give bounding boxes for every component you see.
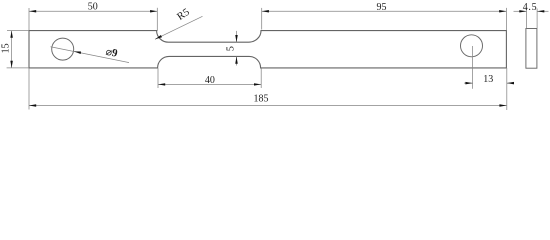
leader d9 <box>51 47 130 63</box>
dim 185/13 ext right <box>506 68 508 110</box>
arrow 185 right <box>499 104 506 106</box>
arrow 5 top <box>235 35 238 42</box>
arrow 4.5 right <box>537 10 544 12</box>
arrow 15 bottom <box>10 61 13 68</box>
dim 15 line <box>11 31 13 68</box>
arrowheads <box>10 10 544 107</box>
dim 185 ext left <box>28 68 30 110</box>
svg-text:4.5: 4.5 <box>523 2 538 13</box>
dim 13 line right part <box>507 82 514 84</box>
arrow 50 left <box>29 10 36 12</box>
hole left d9 <box>52 38 74 60</box>
side view rectangle (thickness 4.5) <box>526 29 537 69</box>
arrow 4.5 left <box>519 10 526 12</box>
dim 50 ext left <box>28 8 30 30</box>
arrow 15 top <box>10 31 13 38</box>
dim 5 lower segment <box>236 57 238 66</box>
part outline: notched flat bar, front view <box>29 31 506 68</box>
dim 13 line left part <box>464 82 473 84</box>
arrow 5 bottom <box>235 57 238 64</box>
dim 185 line <box>29 105 507 107</box>
arrow 95 right <box>499 10 506 12</box>
dim 4.5 ext right <box>536 9 538 29</box>
svg-text:40: 40 <box>205 75 215 86</box>
dim 5 upper segment <box>236 31 238 42</box>
svg-text:15: 15 <box>1 43 12 53</box>
dim 4.5 line left part <box>514 10 527 12</box>
arrow 40 right <box>254 83 261 85</box>
svg-text:13: 13 <box>483 74 493 85</box>
dim 4.5 line right part <box>537 10 548 12</box>
svg-text:95: 95 <box>377 2 387 13</box>
arrow 50 right <box>150 10 157 12</box>
hole right <box>461 35 483 57</box>
svg-text:5: 5 <box>226 46 237 51</box>
svg-text:185: 185 <box>254 94 269 105</box>
dim 4.5 ext left <box>526 9 528 29</box>
dim 15 ext bottom <box>7 67 29 69</box>
arrow R5 leader <box>155 35 162 39</box>
arrow 95 left <box>262 10 269 12</box>
dim 50 line <box>29 10 157 12</box>
dim 15 ext top <box>7 30 29 32</box>
arrow 185 left <box>29 104 36 106</box>
dim 40 line <box>158 83 261 85</box>
dim 95 line <box>262 10 507 12</box>
arrow d9 leader <box>74 51 81 54</box>
dim 13 ext through hole center <box>472 46 474 89</box>
thin dimension lines <box>7 8 549 110</box>
arrow 40 left <box>158 83 165 85</box>
arrow 13 left <box>465 82 472 84</box>
dim 95 ext right <box>505 8 507 30</box>
dim 40 ext right <box>260 68 262 88</box>
svg-text:50: 50 <box>88 2 98 13</box>
dim 40 ext left <box>157 68 159 88</box>
dim 95 ext left <box>261 8 263 30</box>
leader R5 <box>155 16 203 39</box>
arrow 13 right <box>507 82 514 84</box>
dim 50 ext right <box>156 8 158 31</box>
